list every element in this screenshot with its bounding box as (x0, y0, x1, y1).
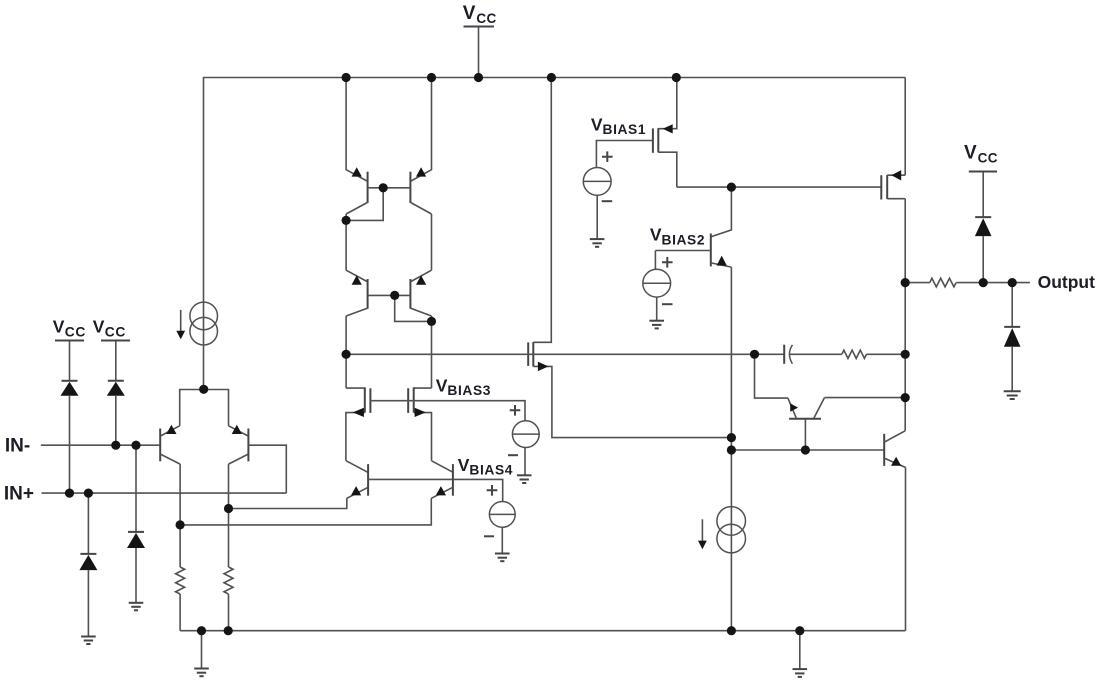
node: Q7 base dot (801, 445, 810, 454)
mosfet M2 (second gain stage) (528, 78, 731, 438)
port Output label (1038, 272, 1096, 292)
wire: right column vertical (904, 199, 906, 431)
svg-text:BIAS2: BIAS2 (662, 232, 706, 247)
node: gate line tap dot (342, 350, 351, 359)
port IN- label (5, 436, 30, 457)
svg-text:BIAS1: BIAS1 (603, 122, 647, 137)
svg-text:V: V (458, 455, 470, 475)
svg-text:V: V (591, 114, 603, 134)
transistor Q5 (second stage left) (228, 461, 368, 509)
svg-text:V: V (436, 376, 448, 396)
wire: Q1 collector drop (179, 464, 181, 567)
resistor R3 (compensation) (842, 350, 905, 358)
transistor Q8 (output NPN) (884, 431, 906, 631)
svg-text:V: V (964, 143, 977, 164)
node: right collector dot (224, 504, 233, 513)
wire: IN+ line (42, 492, 287, 494)
resistor R2 (224, 567, 233, 631)
svg-text:CC: CC (105, 324, 126, 339)
diode D6 (ground to output) (1004, 283, 1021, 391)
diode D2 (IN- to VCC) (107, 341, 125, 445)
svg-text:V: V (650, 225, 662, 245)
node: rail junction dots (342, 73, 681, 82)
wire: quad mid verticals (346, 214, 431, 270)
power label VCC (top) (463, 3, 497, 77)
transistor Q4b (lower mirror right PNP) (410, 270, 431, 316)
label VBIAS2 (650, 225, 705, 248)
svg-text:V: V (53, 317, 65, 337)
node: Q3a collector dot (342, 216, 351, 225)
node: Q4 base dot (390, 291, 399, 300)
voltage source VBIAS1 (583, 151, 612, 238)
diode D3 (ground to IN+) (79, 493, 97, 636)
voltage source VBIAS4 (484, 485, 515, 553)
svg-text:V: V (463, 3, 476, 24)
power label VCC (left 1) (53, 317, 86, 341)
wire: Q4b collector drop (431, 316, 433, 388)
svg-text:CC: CC (476, 11, 496, 26)
transistor Q6 (second stage right) (180, 461, 453, 525)
node: left collector dot (176, 520, 185, 529)
wire: Q2 base loop to IN+ (248, 445, 286, 493)
transistor Q7 (PNP, horizontal) (788, 398, 905, 450)
port IN+ label (4, 484, 34, 505)
ground (bottom left) (194, 631, 209, 677)
voltage source VBIAS3 (508, 405, 539, 475)
ground (VBIAS2) (649, 321, 664, 329)
resistor R4 (output) (930, 278, 1030, 287)
transistor Q3b (upper mirror right PNP) (410, 78, 431, 215)
transistor Q3a (upper mirror left PNP) (346, 78, 368, 215)
wire: M3/M4 gate line to VBIAS3 (370, 401, 525, 421)
svg-text:Output: Output (1038, 272, 1096, 292)
node: bottom rail dots (197, 626, 805, 635)
svg-text:BIAS3: BIAS3 (447, 383, 491, 398)
svg-text:IN+: IN+ (4, 484, 34, 505)
label VBIAS4 (458, 455, 513, 478)
svg-text:CC: CC (65, 324, 86, 339)
mosfet M1 (VBIAS1 cascode PMOS) (596, 78, 676, 188)
mosfet M4 (right cascode) (408, 387, 431, 461)
current source I2 (output stage bias) (698, 507, 746, 553)
ground (VBIAS4) (495, 554, 510, 562)
transistor Q9 (VBIAS2 NPN) (655, 187, 731, 631)
wire: comp tap to Q7 emitter (755, 354, 788, 398)
node: M2 source junction dots (727, 433, 736, 455)
ground (VBIAS1) (590, 239, 605, 247)
wire: Q3 base tie (346, 188, 410, 221)
svg-text:IN-: IN- (5, 436, 30, 457)
node: IN- junction dots (111, 441, 140, 450)
svg-text:CC: CC (978, 151, 998, 166)
voltage source VBIAS2 (643, 251, 673, 321)
node A: input pair tail dot (199, 385, 208, 394)
diode D4 (ground to IN-) (127, 445, 145, 602)
svg-text:BIAS4: BIAS4 (469, 462, 513, 477)
node: output junction dots (901, 278, 1017, 359)
wire: output line (905, 282, 930, 284)
transistor Q1 (input PNP, inverting side) (160, 425, 180, 464)
wire: Q2 collector drop (228, 464, 230, 567)
node: Q7 collector dot (901, 393, 910, 402)
node: VBIAS2 collector dot (727, 183, 736, 192)
ground (below D6) (1004, 391, 1021, 399)
label VBIAS1 (591, 114, 646, 137)
wire: Q4a collector drop (345, 316, 347, 388)
wire: input pair emitter tee (180, 390, 229, 426)
node: IN+ junction dots (65, 489, 93, 498)
ground (VBIAS3) (517, 475, 532, 483)
node: Q3 base dot (379, 183, 388, 192)
svg-text:V: V (93, 317, 105, 337)
ground (bottom middle) (793, 631, 808, 677)
wire: M1 drain to output PMOS gate (677, 186, 882, 188)
transistor Q2 (input PNP, non-inverting side) (229, 425, 249, 464)
wire: IN- line (41, 444, 160, 446)
wire: Q4 base tie (368, 295, 432, 321)
power label VCC (left 2) (93, 317, 130, 341)
diode D5 (output to VCC) (975, 172, 992, 282)
label VBIAS3 (436, 376, 491, 398)
wire: top VCC rail (204, 78, 906, 390)
node: compensation tap dot (750, 350, 759, 359)
wire: M2 gate line (long) (346, 353, 784, 355)
power label VCC (top right) (964, 143, 998, 172)
wire: Q5 Q6 base line to VBIAS4 (368, 479, 503, 501)
wire: bottom rail (180, 630, 905, 632)
wire: base line to Q8 (731, 449, 884, 451)
resistor R1 (176, 567, 185, 631)
ground (below D4) (129, 603, 144, 611)
diode D1 (IN+ to VCC) (61, 341, 79, 493)
mosfet M3 (left cascode) (346, 387, 371, 461)
transistor Q4a (lower mirror left PNP) (346, 270, 368, 316)
capacitor C1 (784, 345, 842, 364)
node: Q4b collector dot (427, 317, 436, 326)
ground (below D3) (81, 637, 96, 645)
mosfet M5 (output PMOS) (881, 78, 905, 200)
current source I1 (input tail) (176, 302, 217, 345)
